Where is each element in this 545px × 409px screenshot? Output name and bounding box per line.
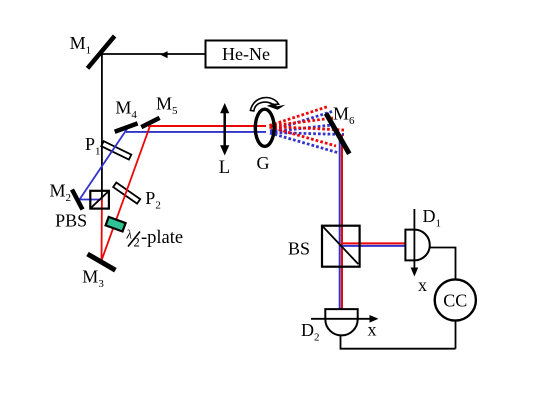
svg-text:-plate: -plate xyxy=(141,228,183,248)
half-wave plate xyxy=(106,217,126,232)
He-Ne laser box xyxy=(206,41,287,68)
svg-text:λ: λ xyxy=(126,228,133,242)
mirror M4 xyxy=(115,123,138,131)
D2 scan axis line with arrow xyxy=(311,315,379,323)
svg-text:2: 2 xyxy=(134,236,140,250)
diffracted ray r4 (red dotted) xyxy=(270,127,337,146)
label half-wave plate xyxy=(126,228,184,250)
diffracted ray b4 (blue dotted) xyxy=(270,133,339,153)
beam M3 to M5 (red) xyxy=(102,127,150,261)
svg-text:BS: BS xyxy=(288,238,310,258)
svg-text:x: x xyxy=(418,275,427,295)
mirror M5 xyxy=(141,118,159,127)
wire D1 to CC xyxy=(431,248,456,282)
svg-text:PBS: PBS xyxy=(55,211,87,231)
svg-text:L: L xyxy=(219,158,230,178)
svg-text:CC: CC xyxy=(443,291,467,311)
diffracted ray b1 (blue dotted) xyxy=(270,112,332,132)
beam BS to D1 (blue horizontal) xyxy=(339,245,406,247)
beam M6 to D2 (blue vertical) xyxy=(339,138,341,309)
wire bottom bus xyxy=(341,334,456,349)
diffracted ray b3 (blue dotted) xyxy=(270,133,344,135)
beam M2 to M4 (blue) xyxy=(80,129,128,200)
beam He-Ne to M1 xyxy=(102,53,206,55)
polarizing beam splitter PBS xyxy=(90,191,109,209)
D1 scan axis line with arrow xyxy=(411,209,419,277)
arrowhead on He-Ne beam xyxy=(160,51,167,58)
mirror M1 xyxy=(88,36,115,68)
svg-text:He-Ne: He-Ne xyxy=(222,44,270,64)
lens L (double arrow) xyxy=(220,103,229,156)
detector D1 xyxy=(405,230,429,261)
rotation arrow above G xyxy=(250,98,285,111)
coincidence counter CC xyxy=(435,279,476,320)
beam M1 to PBS (vertical) xyxy=(101,52,103,200)
mirror M6 xyxy=(326,113,349,153)
mirror M2 xyxy=(72,190,83,210)
beam PBS to M3 (red) xyxy=(101,200,103,261)
diffracted ray r2 (red dotted) xyxy=(270,118,334,126)
beam M4 to G (blue) xyxy=(126,131,266,133)
svg-text:x: x xyxy=(368,319,377,339)
diffracted ray b2 (blue dotted) xyxy=(270,125,336,133)
beam splitter BS xyxy=(322,226,360,267)
wire CC to bottom bus xyxy=(455,321,457,349)
diffracted ray r3 (red dotted) xyxy=(270,127,345,131)
detector D2 xyxy=(325,309,357,335)
grating G xyxy=(255,109,274,146)
svg-text:G: G xyxy=(257,153,270,173)
beam BS to D1 (red horizontal) xyxy=(341,242,406,244)
beam PBS to M2 (blue) xyxy=(80,199,103,201)
polarizer P1 xyxy=(101,141,131,159)
diffracted ray r1 (red dotted) xyxy=(270,107,329,126)
beam M5 to G (red) xyxy=(148,125,266,127)
beam M6 to D2 (red vertical) xyxy=(341,135,343,310)
polarizer P2 xyxy=(113,183,140,204)
mirror M3 xyxy=(88,254,116,270)
